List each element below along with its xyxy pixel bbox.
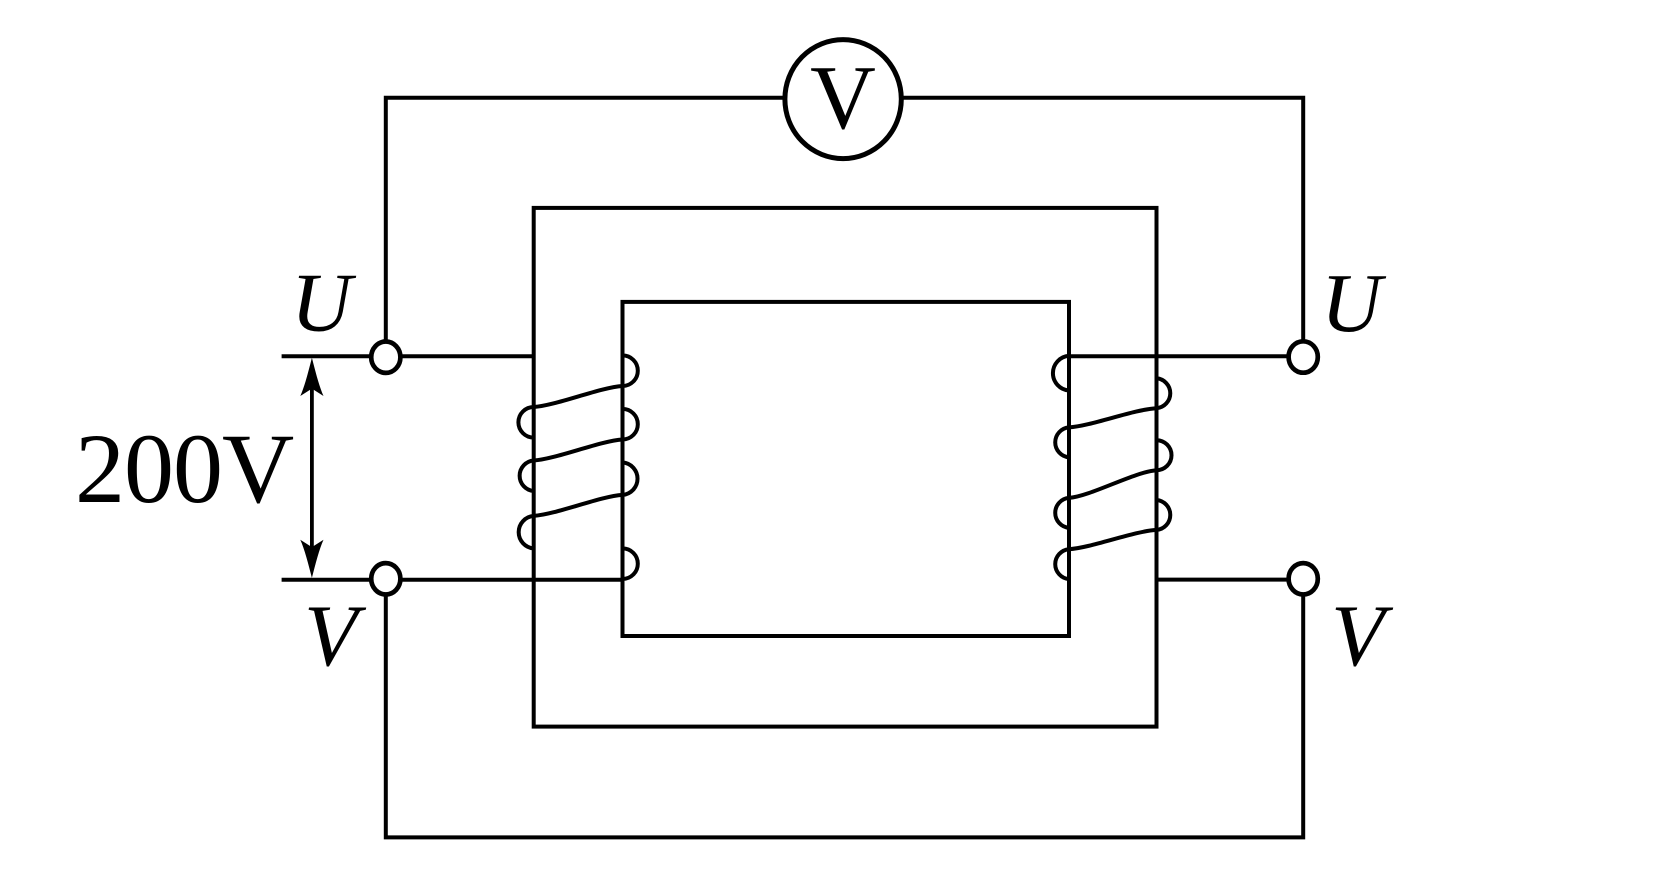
primary winding L1 turn2 crossover	[534, 440, 623, 461]
secondary winding L2 turn1 arc outer	[1157, 378, 1171, 408]
terminal V right	[1289, 563, 1318, 594]
wire right U from secondary winding to terminal	[1069, 354, 1303, 358]
primary winding L1 turn1 arc inner	[623, 355, 638, 386]
wire right V from core to terminal	[1157, 578, 1304, 582]
primary winding L1 turn2 arc outer	[520, 461, 534, 492]
transformer core inner rectangle (window)	[623, 302, 1070, 636]
secondary winding L2 turn2 arc outer	[1157, 440, 1172, 470]
secondary winding L2 turn3 crossover	[1069, 530, 1157, 549]
secondary winding L2 turn1 crossover	[1069, 408, 1157, 427]
svg-text:V: V	[304, 588, 367, 685]
primary winding L1 turn2 arc inner	[623, 409, 638, 440]
wire bottom from left V terminal to right V terminal	[386, 579, 1303, 837]
svg-text:V: V	[1331, 588, 1394, 685]
transformer core outer rectangle	[534, 208, 1157, 727]
svg-text:V: V	[810, 47, 876, 148]
terminal V left	[371, 563, 400, 594]
svg-text:U: U	[1321, 257, 1387, 350]
terminal U right	[1289, 341, 1318, 372]
wire left V stub to primary winding	[282, 578, 623, 582]
wire top-right from voltmeter to right U terminal	[902, 98, 1303, 357]
svg-text:U: U	[291, 256, 357, 349]
secondary winding L2 turn2 crossover	[1069, 470, 1157, 498]
primary winding L1 turn3 arc inner	[623, 462, 638, 495]
primary winding L1 turn1 arc outer	[518, 407, 533, 438]
terminal U left	[371, 342, 400, 373]
secondary winding L2 turn3 arc outer	[1157, 500, 1171, 530]
primary winding L1 turn4 arc inner	[623, 548, 638, 579]
secondary winding L2 turn3 arc inner	[1055, 498, 1069, 528]
primary winding L1 turn1 crossover	[534, 386, 623, 407]
secondary winding L2 turn1 arc inner	[1053, 356, 1069, 391]
secondary winding L2 turn2 arc inner	[1055, 427, 1069, 457]
wire left U stub to core	[282, 354, 534, 358]
secondary winding L2 turn4 arc inner	[1055, 549, 1069, 579]
wire top-left from U terminal up and right to voltmeter	[386, 98, 785, 358]
primary winding L1 turn3 arc outer	[519, 516, 534, 549]
dimension arrow 200V double-headed	[300, 358, 323, 578]
svg-text:200V: 200V	[75, 413, 294, 524]
primary winding L1 turn3 crossover	[534, 495, 623, 516]
voltmeter V meter circle	[785, 40, 901, 159]
